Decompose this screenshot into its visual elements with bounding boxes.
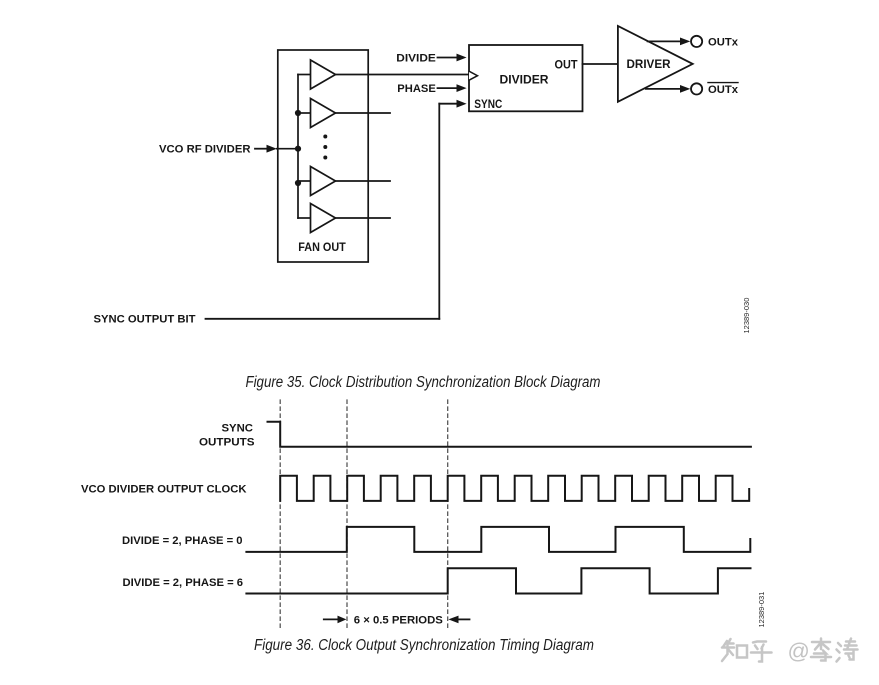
timing: dashed reference line 2 bbox=[346, 400, 348, 628]
annotation arrow right into dashed line 3 bbox=[448, 616, 469, 624]
terminal circle OUTx bbox=[691, 36, 702, 47]
svg-text:6 × 0.5 PERIODS: 6 × 0.5 PERIODS bbox=[354, 614, 443, 626]
buffer U3 bbox=[311, 167, 336, 196]
wire: driver to OUTx arrow bbox=[648, 38, 691, 46]
svg-text:OUTPUTS: OUTPUTS bbox=[199, 436, 255, 448]
wire: driver to OUTx-bar arrow bbox=[646, 85, 691, 93]
svg-text:OUT: OUT bbox=[555, 58, 579, 72]
wire: VCO RF DIVIDER input arrow bbox=[255, 145, 298, 153]
wire: DIVIDE arrow into divider bbox=[438, 54, 467, 62]
wire: SYNC vertical net bbox=[438, 104, 440, 319]
watermark character tao bbox=[837, 639, 858, 662]
divider clock input caret bbox=[469, 71, 478, 80]
wire: U1 output to divider clock input bbox=[336, 74, 470, 76]
wire: U4 output bbox=[336, 217, 391, 219]
wire: input rail vertical inside fan out bbox=[297, 75, 299, 219]
svg-text:12389-031: 12389-031 bbox=[757, 592, 766, 628]
svg-text:SYNC OUTPUT BIT: SYNC OUTPUT BIT bbox=[94, 314, 196, 326]
wire: stub rail to buffer U2 bbox=[298, 112, 311, 114]
svg-text:SYNC: SYNC bbox=[474, 97, 502, 111]
svg-text:OUTx: OUTx bbox=[708, 36, 739, 48]
svg-text:VCO RF DIVIDER: VCO RF DIVIDER bbox=[159, 144, 251, 156]
svg-text:Figure 35. Clock Distribution: Figure 35. Clock Distribution Synchroniz… bbox=[246, 374, 601, 391]
svg-text:12389-030: 12389-030 bbox=[742, 298, 751, 334]
waveform: divide 2 phase 6 bbox=[246, 568, 750, 593]
wire: SYNC OUTPUT BIT horizontal net bbox=[206, 318, 440, 320]
wire: SYNC arrow into divider bbox=[439, 100, 466, 108]
timing: dashed reference line 3 bbox=[447, 400, 449, 628]
watermark character li bbox=[811, 639, 831, 661]
wire: stub rail to buffer U1 bbox=[298, 74, 311, 76]
watermark character zhi bbox=[722, 639, 858, 662]
svg-text:DIVIDE = 2, PHASE = 0: DIVIDE = 2, PHASE = 0 bbox=[122, 535, 243, 547]
svg-text:SYNC: SYNC bbox=[222, 423, 254, 435]
svg-text:DIVIDER: DIVIDER bbox=[500, 73, 549, 87]
wire: stub rail to buffer U4 bbox=[298, 217, 311, 219]
wire: U3 output bbox=[336, 180, 391, 182]
svg-text:PHASE: PHASE bbox=[397, 83, 436, 95]
svg-text:DIVIDE = 2, PHASE = 6: DIVIDE = 2, PHASE = 6 bbox=[123, 577, 244, 589]
svg-text:DRIVER: DRIVER bbox=[627, 57, 671, 71]
buffer U2 bbox=[311, 99, 336, 128]
wire: PHASE arrow into divider bbox=[438, 84, 467, 92]
label OUTx-bar bbox=[708, 83, 739, 96]
junction dot on rail at U2 input bbox=[295, 110, 301, 116]
svg-text:@: @ bbox=[788, 639, 810, 664]
driver amplifier triangle bbox=[618, 26, 693, 102]
svg-text:VCO DIVIDER OUTPUT CLOCK: VCO DIVIDER OUTPUT CLOCK bbox=[81, 484, 247, 496]
svg-text:OUTx: OUTx bbox=[708, 84, 739, 96]
buffer U4 bbox=[311, 204, 336, 233]
wire: stub rail to buffer U3 bbox=[298, 180, 311, 182]
junction dot on rail at U3 input bbox=[295, 180, 301, 186]
svg-text:DIVIDE: DIVIDE bbox=[396, 52, 436, 64]
terminal circle OUTx-bar bbox=[691, 83, 702, 94]
timing: dashed reference line 1 bbox=[279, 400, 281, 628]
wire: divider OUT to driver bbox=[583, 63, 619, 65]
buffer U1 bbox=[311, 60, 336, 89]
svg-text:FAN OUT: FAN OUT bbox=[298, 240, 346, 254]
annotation arrow left into dashed line 2 bbox=[324, 616, 347, 624]
waveform: vco divider output clock bbox=[280, 476, 749, 501]
waveform: divide 2 phase 0 bbox=[246, 527, 750, 552]
wire: U2 output bbox=[336, 112, 391, 114]
watermark character hu bbox=[751, 642, 772, 662]
junction dot on rail at main input bbox=[295, 146, 301, 152]
ellipsis dots between buffers bbox=[323, 135, 327, 160]
divider block box bbox=[469, 45, 583, 111]
fan-out block box bbox=[278, 50, 368, 262]
svg-text:Figure 36. Clock Output Synchr: Figure 36. Clock Output Synchronization … bbox=[254, 637, 594, 654]
waveform: sync outputs bbox=[268, 422, 751, 447]
